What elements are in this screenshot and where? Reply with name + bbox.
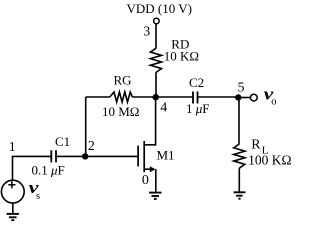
- svg-text:1 μF: 1 μF: [186, 101, 210, 116]
- svg-text:100 KΩ: 100 KΩ: [248, 152, 291, 167]
- svg-text:1: 1: [9, 140, 16, 155]
- svg-text:C2: C2: [189, 75, 204, 90]
- svg-text:R: R: [251, 138, 261, 153]
- svg-text:5: 5: [238, 80, 245, 95]
- svg-text:0: 0: [142, 173, 149, 188]
- svg-text:3: 3: [143, 24, 150, 39]
- svg-text:2: 2: [88, 139, 95, 154]
- svg-text:RG: RG: [114, 73, 132, 88]
- svg-text:M1: M1: [157, 148, 175, 163]
- svg-text:10 KΩ: 10 KΩ: [164, 49, 199, 64]
- svg-text:C1: C1: [55, 134, 70, 149]
- svg-text:s: s: [36, 191, 40, 202]
- svg-text:VDD (10 V): VDD (10 V): [127, 1, 192, 16]
- svg-text:4: 4: [160, 101, 167, 116]
- svg-text:o: o: [271, 97, 276, 108]
- svg-text:10 MΩ: 10 MΩ: [102, 104, 139, 119]
- svg-text:0.1 μF: 0.1 μF: [32, 163, 65, 178]
